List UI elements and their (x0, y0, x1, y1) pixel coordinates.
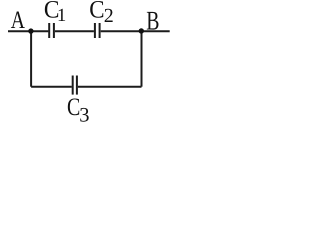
svg-text:A: A (11, 7, 25, 34)
svg-text:1: 1 (57, 6, 66, 26)
svg-text:3: 3 (79, 104, 89, 126)
svg-text:2: 2 (104, 5, 114, 27)
svg-text:C: C (89, 0, 104, 24)
svg-text:B: B (146, 6, 159, 36)
